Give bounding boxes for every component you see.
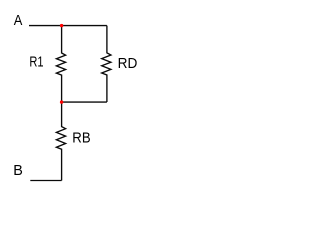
svg-text:R1: R1: [29, 53, 43, 70]
svg-text:A: A: [14, 11, 23, 28]
svg-text:RD: RD: [118, 56, 138, 73]
svg-text:RB: RB: [72, 129, 90, 146]
svg-text:B: B: [13, 163, 23, 179]
